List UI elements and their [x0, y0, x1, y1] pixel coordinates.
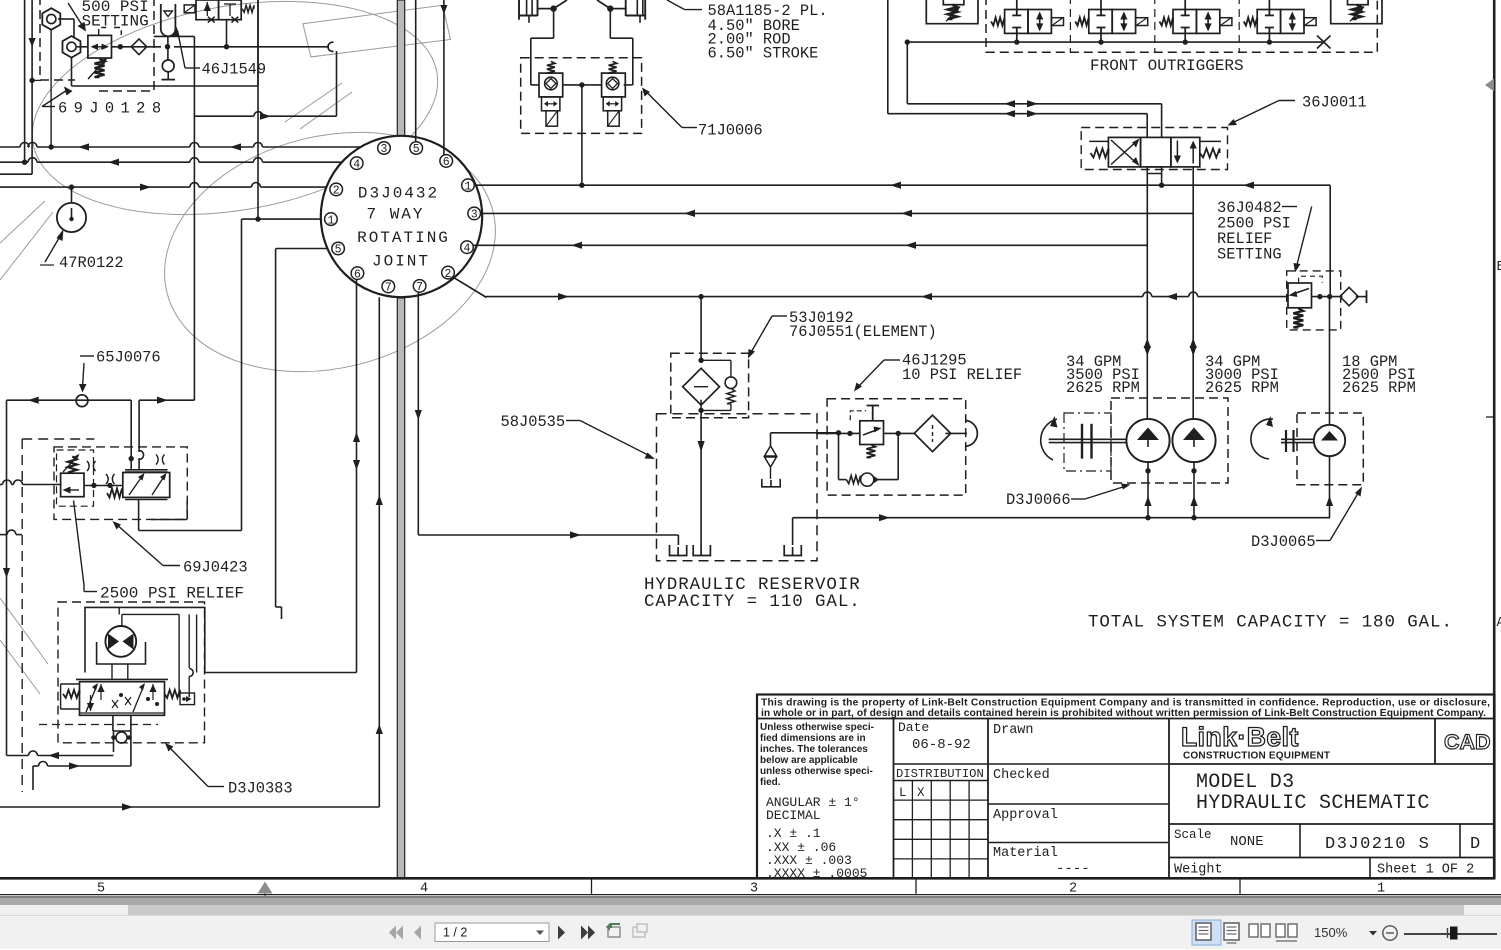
- svg-text:2: 2: [445, 268, 452, 281]
- svg-text:D3J0383: D3J0383: [228, 780, 293, 798]
- wire 71J0006 drop to bus: [581, 85, 583, 185]
- rotating joint D3J0432 circle: [321, 136, 482, 297]
- motor loop box: [85, 607, 205, 672]
- svg-text:3: 3: [381, 143, 388, 156]
- svg-text:Checked: Checked: [993, 768, 1050, 783]
- horizontal scrollbar: [0, 905, 1501, 915]
- svg-text:D3J0066: D3J0066: [1006, 491, 1071, 509]
- svg-text:D3J0210 S: D3J0210 S: [1325, 835, 1430, 854]
- check ball 65J0076: [76, 395, 88, 407]
- rotating joint pin 2: [442, 266, 455, 279]
- relief valve 500 PSI setting: [88, 35, 112, 58]
- title block outer: [757, 695, 1495, 879]
- filter bypass check: [698, 358, 703, 363]
- wire return to reservoir: [418, 534, 678, 536]
- svg-text:.XXXX ± .0005: .XXXX ± .0005: [766, 866, 867, 881]
- svg-text:in whole or in part, of design: in whole or in part, of design and detai…: [761, 708, 1486, 719]
- svg-text:4: 4: [353, 158, 360, 171]
- pump P3 shaft: [1281, 438, 1314, 440]
- wire pin7b drop: [417, 292, 419, 535]
- X marks below valve: [208, 17, 215, 23]
- zone ticks: [591, 880, 593, 894]
- pump suction drops: [1147, 462, 1149, 518]
- svg-text:CAPACITY = 110 GAL.: CAPACITY = 110 GAL.: [644, 592, 861, 612]
- wire bus to pin 4 left: [0, 161, 28, 163]
- wire bank riser left: [887, 0, 889, 114]
- svg-text:NONE: NONE: [1230, 834, 1264, 850]
- svg-text:DECIMAL: DECIMAL: [766, 808, 821, 823]
- relief valve 36J0482 dashed box: [1287, 271, 1341, 330]
- toolbar page field: [435, 923, 549, 942]
- svg-text:Link·Belt: Link·Belt: [1181, 722, 1299, 752]
- rotating joint pin 4: [461, 241, 474, 254]
- rotating joint pin 3: [468, 207, 481, 220]
- wire 69J0423 through line: [0, 484, 3, 486]
- wire return line A: [7, 755, 29, 757]
- drawn cell: [1168, 719, 1170, 879]
- svg-text:1: 1: [1377, 882, 1385, 897]
- valve 46J1295 dashed box: [827, 399, 966, 495]
- pump P3 dashed box: [1297, 413, 1363, 485]
- 46J1295 bypass loop: [838, 433, 840, 479]
- wire left edge risers: [24, 0, 26, 162]
- toolbar previous-view icon: [608, 927, 620, 937]
- wire pin2 right diagonal: [453, 277, 487, 298]
- wire relief output: [1312, 296, 1343, 298]
- tank symbol 2: [693, 545, 710, 556]
- rotating joint axis bar upper: [397, 0, 404, 139]
- bank right relief valve: [1331, 0, 1382, 24]
- wire hex1 drop to bus: [50, 30, 52, 147]
- pump drive shaft: [1049, 438, 1128, 440]
- svg-text:47R0122: 47R0122: [59, 254, 124, 272]
- 46J1295 output line: [884, 432, 915, 434]
- watermark rectangle top: [303, 5, 451, 57]
- svg-text:D3J0432: D3J0432: [358, 185, 439, 203]
- svg-text:FRONT OUTRIGGERS: FRONT OUTRIGGERS: [1090, 57, 1244, 75]
- svg-text:36J0011: 36J0011: [1302, 94, 1367, 112]
- valve 69J0423 body2: [123, 473, 170, 498]
- sheet right border: [1493, 0, 1496, 878]
- wire riser pin1 branch down: [241, 219, 243, 530]
- holding valve block 71J0006 dashed box: [521, 58, 642, 134]
- wire pin7a drop: [378, 297, 380, 807]
- svg-text:TOTAL SYSTEM CAPACITY = 180 GA: TOTAL SYSTEM CAPACITY = 180 GAL.: [1088, 613, 1453, 633]
- watermark scratch lines top: [285, 83, 352, 129]
- wire 71J0006 center: [563, 84, 602, 86]
- svg-text:58J0535: 58J0535: [501, 413, 566, 431]
- tank symbol 3: [784, 545, 801, 556]
- wire riser x194: [154, 35, 195, 37]
- valve D3J0383 internals: [86, 685, 97, 712]
- svg-text:2625 RPM: 2625 RPM: [1205, 379, 1279, 397]
- toolbar single-page layout icon (selected): [1192, 920, 1221, 945]
- svg-text:4: 4: [420, 882, 428, 897]
- svg-text:7: 7: [416, 281, 423, 294]
- accumulator 46J1549: [161, 4, 176, 36]
- wire bus to pin 2 left: [0, 186, 190, 188]
- toolbar two-page layout icon: [1249, 924, 1258, 937]
- hex fitting lower: [63, 36, 81, 58]
- leader 58A1185: [667, 0, 685, 10]
- rotating joint pin 5: [332, 242, 345, 255]
- wire far-left return stub: [0, 534, 7, 536]
- pump P3 18GPM: [1314, 425, 1345, 456]
- outrigger solenoid valve 3: [1173, 10, 1196, 34]
- center marker triangle right: [1485, 79, 1494, 92]
- notice box: [757, 718, 1495, 720]
- wire valve to motor: [111, 664, 113, 679]
- holding valve 2: [609, 61, 617, 73]
- 46J1295 spring below: [866, 445, 875, 458]
- check valve below D3J0383: [112, 715, 114, 731]
- wire bus pin1 right: [474, 184, 1330, 186]
- wire cylinder1 junction: [538, 8, 554, 10]
- wire pin5 top riser: [415, 0, 417, 142]
- filter diamond: [683, 368, 720, 405]
- relief valve 2500psi body: [61, 473, 84, 497]
- svg-text:.X ± .1: .X ± .1: [766, 826, 821, 841]
- svg-text:76J0551(ELEMENT): 76J0551(ELEMENT): [789, 323, 937, 341]
- front outriggers dashed box: [986, 0, 1377, 52]
- rotating joint pin 2: [330, 183, 343, 196]
- wire bottom long line: [0, 806, 379, 808]
- rotating joint pin 1: [325, 213, 338, 226]
- breather X symbol 2: [106, 474, 115, 484]
- svg-text:2625 RPM: 2625 RPM: [1342, 379, 1416, 397]
- relief valve 36J0482 spring: [1293, 309, 1303, 328]
- svg-text:4: 4: [464, 242, 471, 255]
- svg-text:Unless otherwise speci-: Unless otherwise speci-: [760, 722, 874, 733]
- svg-text:Drawn: Drawn: [993, 723, 1034, 738]
- svg-text:CONSTRUCTION EQUIPMENT: CONSTRUCTION EQUIPMENT: [1183, 751, 1330, 762]
- check diamond at relief output: [1340, 287, 1358, 305]
- svg-text:2625 RPM: 2625 RPM: [1066, 379, 1140, 397]
- svg-text:7: 7: [385, 282, 392, 295]
- svg-text:1: 1: [327, 214, 334, 227]
- hex fitting upper: [42, 8, 60, 30]
- wire pin6 right riser: [443, 0, 445, 155]
- wire pump line to 36J0011 left port: [1146, 174, 1148, 420]
- svg-text:3: 3: [750, 882, 758, 897]
- rotating joint pin 1: [462, 179, 475, 192]
- svg-text:L: L: [899, 786, 907, 800]
- wire pin6 lower drop: [356, 280, 358, 673]
- toolbar last-page button: [581, 925, 588, 939]
- svg-text:below are applicable: below are applicable: [760, 755, 858, 766]
- check ball diamond: [131, 39, 147, 55]
- system boundary dashed: [22, 439, 94, 792]
- dashed box 69J0128: [40, 0, 154, 91]
- svg-text:1 / 2: 1 / 2: [443, 925, 467, 939]
- svg-text:65J0076: 65J0076: [96, 349, 161, 367]
- watermark ellipse 1: [15, 0, 454, 244]
- svg-text:D: D: [1470, 835, 1480, 854]
- svg-text:69J0423: 69J0423: [183, 559, 248, 577]
- toolbar next-page button: [558, 925, 565, 939]
- pilot dashed bracket: [99, 28, 122, 36]
- rotating joint pin 3: [378, 142, 391, 155]
- rotating joint pin 5: [410, 142, 423, 155]
- svg-text:Weight: Weight: [1174, 863, 1223, 878]
- svg-text:10 PSI RELIEF: 10 PSI RELIEF: [902, 366, 1022, 384]
- filter 53J0192 dashed box: [671, 353, 749, 418]
- svg-text:150%: 150%: [1314, 925, 1348, 940]
- motor bracket: [97, 642, 146, 664]
- rotating joint pin 7: [382, 280, 395, 293]
- svg-text:JOINT: JOINT: [372, 253, 430, 271]
- watermark lines left: [0, 201, 53, 694]
- toolbar two-page continuous icon: [1276, 924, 1285, 937]
- wire 65J0076 line: [7, 399, 132, 401]
- boundary dashed inner: [39, 724, 158, 726]
- wire hook line right of 46J1549: [336, 51, 338, 116]
- wire bank riser right: [906, 42, 908, 104]
- wire drop to pin 1 left: [257, 0, 259, 219]
- svg-text:Approval: Approval: [993, 808, 1058, 823]
- wire bus pin3 right: [481, 212, 1194, 214]
- valve D3J0383 springs: [61, 683, 80, 685]
- CAD box: [1434, 719, 1436, 765]
- breather symbols: [765, 446, 777, 456]
- wire motor to line: [205, 672, 357, 674]
- wire bus pin4 right: [473, 244, 1147, 246]
- svg-text:A: A: [1497, 616, 1501, 631]
- pump P3 suction: [1329, 456, 1331, 518]
- outrigger solenoid valve 4: [1257, 10, 1280, 34]
- 46J1295 regulator valve: [860, 421, 884, 445]
- svg-text:6: 6: [354, 268, 361, 281]
- wire accumulator drop: [167, 37, 169, 61]
- outrigger solenoid valve 2: [1089, 10, 1112, 34]
- cylinder 58A1185 no1: [518, 0, 520, 20]
- svg-text:2: 2: [1069, 882, 1077, 897]
- toolbar continuous layout icon: [1224, 923, 1239, 940]
- svg-text:5: 5: [335, 244, 342, 257]
- wire to 36J0011 port A: [907, 103, 1161, 105]
- holding valve 1: [547, 61, 555, 73]
- svg-text:HYDRAULIC SCHEMATIC: HYDRAULIC SCHEMATIC: [1196, 792, 1430, 815]
- check valve under accumulator: [162, 60, 174, 72]
- pressure gauge 47R0122: [71, 187, 73, 203]
- rotating joint pin 6: [440, 155, 453, 168]
- wire filter to tank: [700, 400, 702, 545]
- svg-text:7 WAY: 7 WAY: [366, 205, 424, 223]
- rotating joint pin 4: [350, 157, 363, 170]
- toolbar: [0, 915, 1501, 950]
- center marker triangle bottom: [258, 882, 273, 894]
- svg-text:D3J0065: D3J0065: [1251, 533, 1316, 551]
- svg-text:ROTATING: ROTATING: [357, 229, 450, 247]
- wire suction from tank3: [792, 518, 794, 545]
- wire short line y174: [0, 173, 32, 175]
- svg-text:69J0128: 69J0128: [58, 100, 167, 118]
- tolerance cell: [893, 719, 895, 879]
- svg-text:X: X: [917, 786, 925, 800]
- 46J1295 flow meter diamond: [914, 415, 950, 451]
- svg-text:5: 5: [97, 882, 105, 897]
- svg-text:DISTRIBUTION: DISTRIBUTION: [896, 767, 984, 781]
- valve 69J0423 dashed box: [54, 447, 187, 520]
- valve2 pilot stub: [186, 501, 188, 520]
- svg-text:inches. The tolerances: inches. The tolerances: [760, 744, 868, 755]
- svg-text:B: B: [1497, 260, 1501, 275]
- toolbar zoom-out button: [1383, 925, 1397, 939]
- reservoir dashed box: [657, 414, 818, 561]
- svg-text:6: 6: [443, 156, 450, 169]
- 46J1295 hose arc: [945, 432, 967, 434]
- wire bus to pin 3 left: [0, 146, 20, 148]
- svg-text:unless otherwise speci-: unless otherwise speci-: [760, 766, 873, 777]
- outrigger solenoid valve 1: [1005, 10, 1028, 34]
- distribution cell: [894, 780, 989, 782]
- rotation arrow left: [1041, 419, 1057, 460]
- svg-text:MODEL D3: MODEL D3: [1196, 771, 1294, 794]
- rotating joint pin 7: [413, 280, 426, 293]
- relief valve 36J0482 body: [1288, 283, 1312, 308]
- bank end X mark: [1317, 36, 1331, 49]
- spring before valve2: [107, 489, 122, 498]
- swing motor circle: [105, 626, 136, 657]
- svg-text:46J1549: 46J1549: [202, 61, 267, 79]
- svg-text:SETTING: SETTING: [82, 13, 149, 31]
- wire pilot pair to 69J0423: [130, 400, 132, 469]
- svg-text:fied dimensions are in: fied dimensions are in: [760, 733, 866, 744]
- wire breather link: [770, 433, 772, 446]
- valve 36J0011 dashed box: [1081, 128, 1227, 170]
- wire 36J0011 drain stub: [1161, 174, 1163, 186]
- svg-text:2: 2: [333, 185, 340, 198]
- valve 36J0011 body: [1108, 137, 1140, 167]
- date cell: [987, 719, 989, 879]
- svg-text:3: 3: [471, 209, 478, 222]
- watermark ellipse 2: [139, 99, 521, 405]
- wire pin 5 left branch: [276, 248, 333, 250]
- wire to 36J0011 port B: [888, 113, 1147, 115]
- wire pressure drop to filter: [700, 297, 702, 361]
- wire main pressure line: [486, 296, 1143, 298]
- outrigger bank supply bus: [907, 41, 1323, 43]
- breather X symbol 1: [87, 461, 96, 471]
- enclosure path 69J0128: [71, 58, 73, 86]
- tank symbol 1: [670, 545, 687, 556]
- svg-text:----: ----: [1056, 861, 1090, 877]
- 46J1295 inlet line: [838, 432, 840, 435]
- wire return line B: [33, 765, 39, 767]
- svg-text:06-8-92: 06-8-92: [912, 737, 971, 753]
- wire valve output: [77, 46, 88, 48]
- toolbar first-page button: [389, 925, 396, 939]
- toolbar next-view icon: [633, 927, 645, 937]
- bank left relief valve: [926, 0, 978, 24]
- toolbar zoom slider: [1404, 933, 1497, 935]
- pump P3 discharge: [1329, 297, 1331, 425]
- pump P1 34GPM: [1126, 419, 1169, 462]
- wire solenoid valve drop: [226, 20, 228, 47]
- svg-text:fied.: fied.: [760, 777, 781, 788]
- relief valve spring: [95, 59, 105, 77]
- sheet bottom border: [0, 877, 1495, 880]
- svg-text:This drawing is the property o: This drawing is the property of Link-Bel…: [761, 698, 1490, 709]
- svg-text:6.50" STROKE: 6.50" STROKE: [708, 45, 819, 63]
- svg-text:SETTING: SETTING: [1217, 246, 1282, 264]
- toolbar prev-page button: [414, 925, 421, 939]
- svg-text:2500 PSI RELIEF: 2500 PSI RELIEF: [100, 585, 244, 603]
- wire cylinder2 junction: [610, 8, 625, 10]
- enclosure 69J0423 output: [138, 500, 140, 531]
- svg-text:71J0006: 71J0006: [698, 122, 763, 140]
- pump P2 34GPM: [1172, 419, 1215, 462]
- svg-text:CAD: CAD: [1444, 730, 1491, 754]
- rotating joint axis bar lower: [397, 298, 404, 878]
- valve D3J0383 body: [80, 682, 165, 716]
- coupling dash-dot box: [1064, 413, 1111, 471]
- suction line: [793, 517, 1330, 519]
- cylinder 58A1185 no2: [625, 0, 627, 16]
- pump group D3J0066 dashed box: [1111, 398, 1228, 483]
- svg-text:5: 5: [413, 143, 420, 156]
- solenoid valve top: [196, 0, 219, 20]
- relief valve 2500psi spring: [68, 457, 77, 473]
- wire return into tank1: [677, 535, 679, 545]
- svg-text:Sheet 1 OF 2: Sheet 1 OF 2: [1377, 863, 1474, 878]
- wire hex link: [58, 18, 74, 20]
- wire bus pin1 right drop to relief line: [1329, 185, 1331, 296]
- valve 36J0011 springs: [1089, 140, 1108, 142]
- motor dashed box D3J0383: [58, 602, 205, 743]
- rotating joint pin 6: [351, 267, 364, 280]
- wire pump2 line to 36J0011 right port: [1192, 167, 1194, 419]
- zone tick right border: [1486, 416, 1494, 418]
- svg-text:Material: Material: [993, 846, 1058, 861]
- svg-text:Scale: Scale: [1174, 828, 1212, 842]
- svg-text:Date: Date: [898, 720, 929, 735]
- svg-text:1: 1: [465, 180, 472, 193]
- viewer canvas gap: [0, 896, 1501, 898]
- X symbol top right of valve2: [156, 455, 165, 465]
